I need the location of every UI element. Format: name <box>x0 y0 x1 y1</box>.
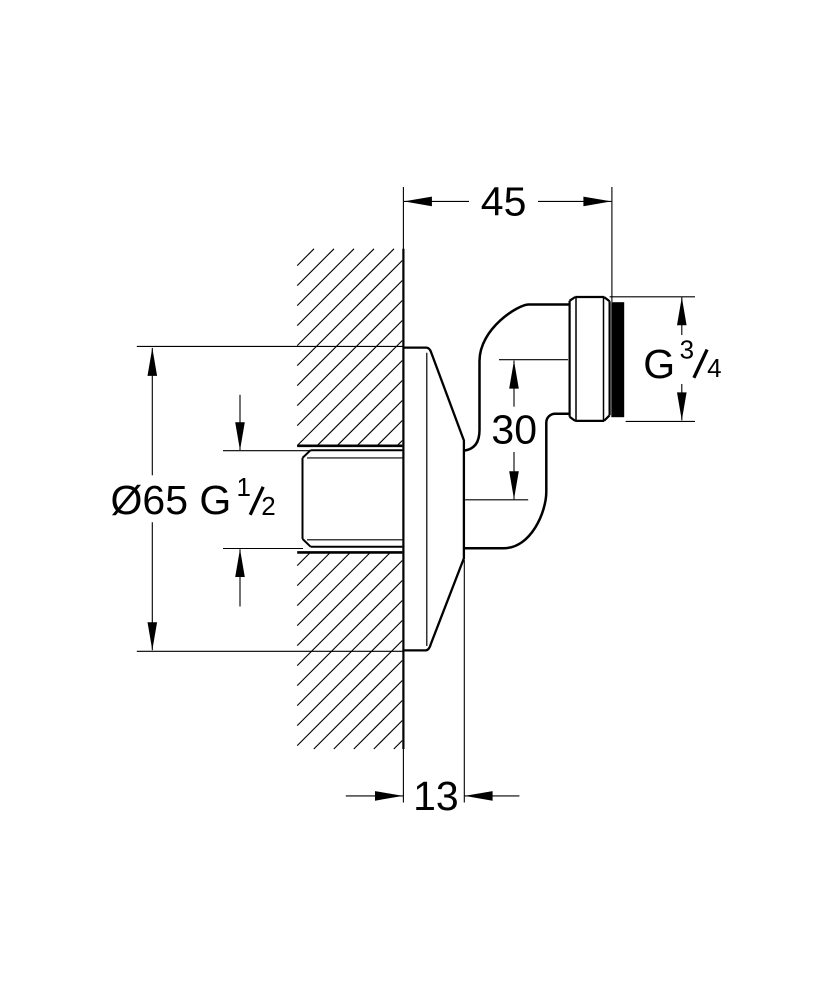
G1/2 nipple outline <box>303 450 403 547</box>
dimension 45: dimension line <box>404 200 612 202</box>
dimension G1/2: arrow lines <box>239 395 241 607</box>
svg-text:1: 1 <box>237 472 251 502</box>
wall hatching (section lines) <box>297 249 402 749</box>
svg-text:G: G <box>643 341 675 387</box>
dimension O65: bottom arrowhead <box>148 622 158 650</box>
dimension 30: dimension line <box>513 361 515 500</box>
dimension G3/4: top arrowhead <box>677 297 687 325</box>
dimension G1/2: bottom arrowhead <box>235 549 245 577</box>
dimension 30: bottom arrowhead <box>509 471 519 499</box>
G1/2 nipple thread core lines <box>307 458 402 540</box>
dimension G3/4: extension lines <box>610 297 695 422</box>
dimension 45: right extension line <box>611 187 613 302</box>
wall hole top edge <box>297 444 402 447</box>
dimension G3/4: dimension line <box>681 297 683 420</box>
svg-text:2: 2 <box>261 491 275 521</box>
dimension 45: left arrowhead <box>404 197 432 207</box>
dimension O65: top arrowhead <box>148 348 158 376</box>
dimension O65: extension lines <box>137 346 403 651</box>
G3/4 threaded connector outline <box>570 297 610 421</box>
dimension 13: left arrowhead <box>375 791 403 801</box>
dimension 13: dimension lines <box>346 795 520 797</box>
dimension 13: right extension line <box>463 560 465 803</box>
pipe inner contour (lower S) <box>464 414 570 549</box>
dimension G1/2: top arrowhead <box>235 422 245 450</box>
wall face line (thin full extent) <box>402 187 404 803</box>
pipe outer contour (upper S) <box>464 305 569 451</box>
svg-text:Ø65 G: Ø65 G <box>111 477 232 523</box>
G3/4 connector inner face lines <box>576 297 604 421</box>
escutcheon inner contour line <box>426 353 428 646</box>
svg-text:45: 45 <box>481 179 527 225</box>
dimension G1/2: extension lines <box>223 451 311 549</box>
svg-text:30: 30 <box>491 407 537 453</box>
dimension 30: top arrowhead <box>509 361 519 389</box>
svg-text:3: 3 <box>680 334 694 364</box>
G3/4 thread black band <box>611 302 624 417</box>
dimension G3/4: bottom arrowhead <box>677 392 687 420</box>
escutcheon (wall rosette) outline <box>403 348 464 651</box>
wall face line (thick outline) <box>402 249 404 749</box>
svg-text:13: 13 <box>413 773 459 819</box>
dimension 13: right arrowhead <box>465 791 493 801</box>
dimension 30: extension lines <box>465 360 568 500</box>
svg-text:4: 4 <box>707 353 721 383</box>
dimension 45: right arrowhead <box>583 197 611 207</box>
wall hole bottom edge <box>297 551 402 554</box>
dimension O65: dimension line <box>151 348 153 650</box>
